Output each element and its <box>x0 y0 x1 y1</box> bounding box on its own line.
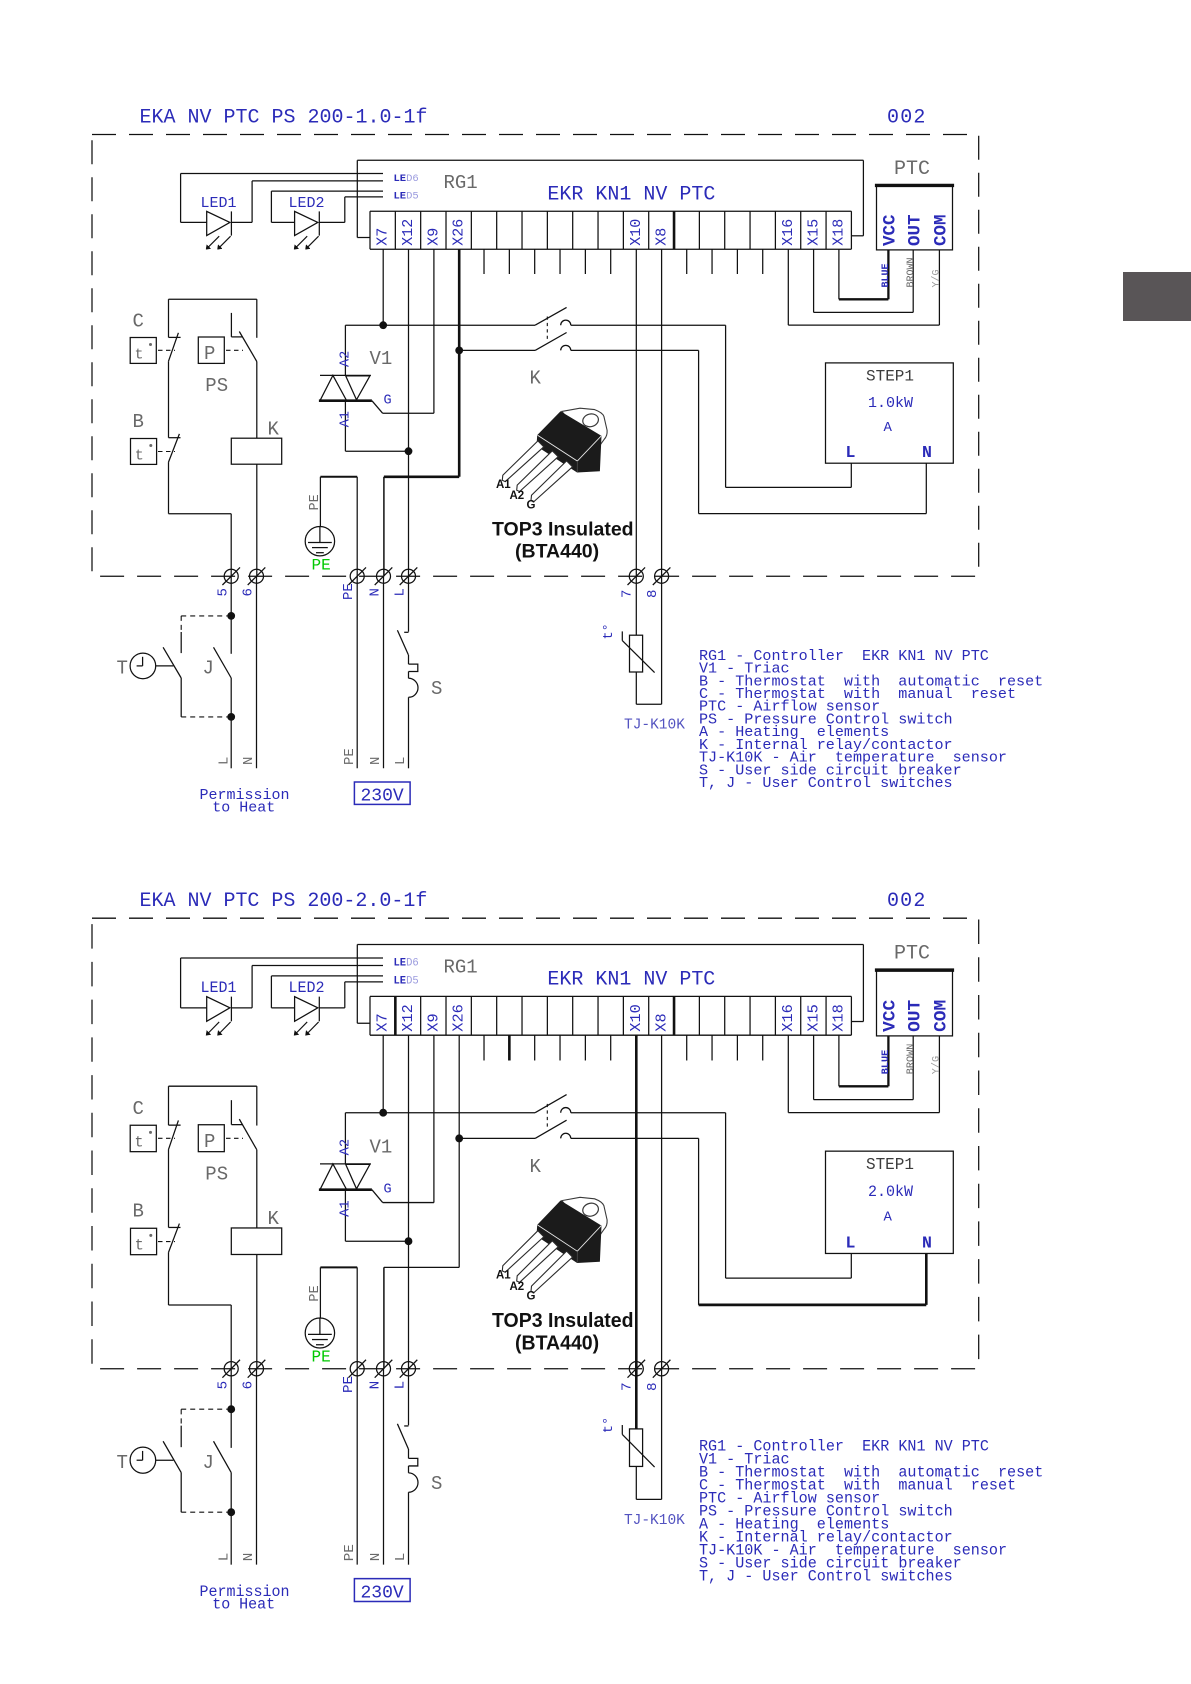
svg-text:LED1: LED1 <box>201 979 237 997</box>
svg-text:V1: V1 <box>370 1136 393 1158</box>
wire LED2 anode to RG1 pin LED5 <box>271 191 383 222</box>
svg-text:t: t <box>135 347 144 364</box>
label PE wire <box>308 494 323 510</box>
svg-text:PE: PE <box>312 556 331 574</box>
svg-text:X10: X10 <box>627 1004 645 1032</box>
pin label X12 <box>400 219 417 246</box>
value label 230V <box>354 782 410 807</box>
terminal label 8 <box>645 590 661 598</box>
svg-text:STEP1: STEP1 <box>866 368 914 386</box>
terminal label N <box>368 1381 384 1390</box>
svg-text:L: L <box>846 443 856 462</box>
wire triac gate G to X9 <box>372 1035 434 1202</box>
svg-text:8: 8 <box>645 590 661 598</box>
svg-text:BLUE: BLUE <box>881 1050 892 1074</box>
wire label BLUE <box>881 1050 892 1074</box>
pin label X9 <box>424 1013 442 1031</box>
svg-text:LED5: LED5 <box>394 191 419 203</box>
terminal label L <box>393 588 409 596</box>
relay contact K lower <box>459 1120 571 1138</box>
svg-text:PS: PS <box>205 375 228 397</box>
title label EKA NV PTC PS 200-1.0-1f <box>140 107 428 130</box>
label TJ-K10K <box>624 718 685 734</box>
svg-text:EKR KN1 NV PTC: EKR KN1 NV PTC <box>547 968 715 991</box>
wire T branch dashed bottom <box>181 678 231 717</box>
label EKR KN1 NV PTC <box>547 968 715 991</box>
pin label X10 <box>628 219 645 246</box>
svg-text:L: L <box>393 757 409 765</box>
svg-text:B: B <box>133 411 144 433</box>
thermostat sensor box B (t deg) <box>131 439 176 465</box>
label TJ-K10K <box>624 1513 685 1529</box>
svg-text:t°: t° <box>602 1417 617 1434</box>
circuit breaker S <box>397 576 418 768</box>
airflow sensor PTC box <box>875 185 954 250</box>
svg-text:EKR KN1 NV PTC: EKR KN1 NV PTC <box>547 184 715 207</box>
thermistor TJ-K10K <box>622 1425 661 1499</box>
junction dot T/J bottom <box>227 713 235 721</box>
wire label PE mains <box>342 748 358 765</box>
pressure switch box P <box>198 1125 243 1153</box>
wire N down <box>383 1369 385 1565</box>
ground symbol PE <box>305 1318 334 1348</box>
svg-text:L: L <box>217 757 233 765</box>
label LED2 <box>289 195 325 212</box>
wire label N mains <box>368 757 384 765</box>
svg-text:X26: X26 <box>451 219 468 246</box>
terminal label 6 <box>241 1381 257 1390</box>
relay contact K upper <box>535 1095 571 1113</box>
svg-text:PTC: PTC <box>894 158 930 181</box>
svg-text:PE: PE <box>341 1376 357 1393</box>
svg-text:N: N <box>368 588 384 596</box>
wire LED1 cathode to RG1 <box>231 966 383 1008</box>
terminal 8 <box>653 1360 671 1378</box>
pin label A1 <box>339 411 354 427</box>
pressure switch contact PS <box>231 1086 256 1228</box>
svg-text:7: 7 <box>620 590 636 598</box>
wire PE down <box>356 1369 358 1565</box>
pin label L <box>846 443 856 462</box>
wire PE down <box>356 576 358 768</box>
pin label X15 <box>805 219 822 246</box>
svg-text:VCC: VCC <box>881 999 901 1032</box>
svg-text:6: 6 <box>241 588 257 596</box>
junction dot A1/X12 node <box>405 447 413 455</box>
title label EKA NV PTC PS 200-2.0-1f <box>140 890 428 913</box>
svg-text:N: N <box>241 1553 257 1562</box>
wire terminal 5 down <box>230 576 232 616</box>
wire N node to terminal N <box>383 1267 385 1368</box>
label A heater <box>884 420 893 436</box>
svg-text:A1: A1 <box>339 411 354 427</box>
wire X12 to terminal L <box>408 1035 410 1369</box>
svg-text:K: K <box>530 1156 542 1178</box>
svg-text:L: L <box>846 1234 856 1253</box>
svg-text:LED2: LED2 <box>289 979 325 997</box>
wire X10 to terminal 7 <box>635 249 637 576</box>
svg-text:COM: COM <box>932 1000 952 1032</box>
wire COM yg to X16 <box>788 1035 939 1112</box>
svg-text:t: t <box>135 1134 144 1152</box>
terminal label 5 <box>216 1381 232 1390</box>
svg-text:PE: PE <box>342 748 358 765</box>
svg-text:to Heat: to Heat <box>212 1596 275 1614</box>
svg-text:X18: X18 <box>830 1004 848 1032</box>
label PTC <box>894 942 930 965</box>
pin label COM <box>932 214 952 246</box>
svg-text:G: G <box>384 1182 392 1197</box>
wire label L mains <box>393 757 409 765</box>
label EKR KN1 NV PTC <box>547 184 715 207</box>
controller RG1 box outline <box>357 160 863 237</box>
wire X8 to terminal 8 <box>661 249 663 576</box>
svg-text:TJ-K10K: TJ-K10K <box>624 1513 685 1529</box>
svg-text:1.0kW: 1.0kW <box>868 395 913 412</box>
relay contact linkage dashed <box>546 317 548 342</box>
svg-text:PE: PE <box>312 1349 331 1367</box>
svg-text:X12: X12 <box>399 1004 417 1032</box>
wire X8 to terminal 8 <box>661 1035 663 1369</box>
svg-text:K: K <box>530 367 542 389</box>
label PS <box>205 1163 228 1185</box>
wire X7 to triac gate node <box>382 1035 384 1113</box>
label PE green <box>312 1349 331 1367</box>
svg-text:LED1: LED1 <box>201 195 237 212</box>
wire B to terminal 5 <box>169 514 232 577</box>
label S <box>431 1473 442 1495</box>
svg-text:A2: A2 <box>510 1280 525 1293</box>
svg-text:X12: X12 <box>400 219 417 246</box>
svg-text:L: L <box>393 588 409 596</box>
svg-text:TJ-K10K: TJ-K10K <box>624 718 685 734</box>
label K coil <box>268 1208 280 1230</box>
junction dot X7/A2 node <box>379 1109 387 1117</box>
label B <box>133 1200 144 1222</box>
svg-text:A: A <box>884 1210 893 1226</box>
pin label LED5 <box>394 191 419 203</box>
relay coil K <box>231 438 281 464</box>
wire K coil to terminal 6 <box>256 1254 258 1368</box>
svg-text:PE: PE <box>342 1544 358 1561</box>
relay contact linkage dashed <box>546 1104 548 1130</box>
wire PE branch <box>320 477 357 576</box>
switch J <box>214 616 232 678</box>
svg-text:N: N <box>368 1553 384 1562</box>
pin label L <box>846 1234 856 1253</box>
svg-text:G: G <box>527 500 536 512</box>
svg-text:to Heat: to Heat <box>212 800 275 817</box>
LED LED2 <box>294 211 319 249</box>
terminal 6 <box>248 1360 266 1378</box>
svg-text:EKA NV PTC PS 200-1.0-1f: EKA NV PTC PS 200-1.0-1f <box>140 107 428 130</box>
svg-text:t: t <box>135 1237 144 1255</box>
svg-text:002: 002 <box>887 890 927 913</box>
wire terminal 5 down <box>230 1369 232 1409</box>
label V1 <box>370 348 393 370</box>
junction dot T/J top <box>227 612 235 620</box>
wire OUT brown to X15 <box>814 1035 914 1099</box>
label PE wire <box>308 1285 323 1302</box>
svg-text:PTC: PTC <box>894 942 930 965</box>
pin label X10 <box>627 1004 645 1032</box>
svg-text:K: K <box>268 418 280 440</box>
pin label LED6 <box>394 173 419 185</box>
terminal 7 <box>628 567 646 585</box>
svg-text:230V: 230V <box>361 787 404 807</box>
svg-text:TOP3 Insulated: TOP3 Insulated <box>492 519 634 541</box>
svg-text:P: P <box>204 343 215 365</box>
wire VCC blue to X18 <box>839 1035 889 1086</box>
svg-text:X16: X16 <box>779 1004 797 1032</box>
svg-text:BROWN: BROWN <box>906 257 917 287</box>
label J <box>203 657 214 679</box>
svg-text:X15: X15 <box>805 1004 823 1032</box>
wire T branch dashed bottom <box>181 1473 231 1513</box>
svg-text:RG1: RG1 <box>444 172 478 194</box>
caption Permission to Heat <box>200 787 290 817</box>
svg-text:5: 5 <box>216 1381 232 1390</box>
wire K lower to STEP1 N <box>571 350 927 513</box>
wire terminal 7 to sensor <box>635 576 637 635</box>
terminal 7 <box>628 1360 646 1378</box>
caption TOP3 Insulated <box>492 1310 634 1332</box>
svg-text:N: N <box>922 443 932 462</box>
wire COM yg to X16 <box>788 249 939 325</box>
caption TOP3 Insulated <box>492 519 634 541</box>
svg-text:J: J <box>203 1452 214 1474</box>
pin label OUT <box>905 999 925 1032</box>
svg-text:X26: X26 <box>450 1004 468 1032</box>
junction dot X7/A2 node <box>379 321 387 329</box>
terminal PE <box>348 1360 366 1378</box>
thermostat contact B <box>169 1224 181 1305</box>
label S <box>431 678 442 700</box>
label C <box>133 310 144 332</box>
svg-text:X9: X9 <box>425 228 442 246</box>
terminal 5 <box>222 567 240 585</box>
svg-text:PE: PE <box>341 583 357 600</box>
pin label X26 <box>451 219 468 246</box>
wire A2 node horizontal <box>345 324 535 326</box>
wire terminal 8 to sensor <box>661 576 663 704</box>
switch T <box>130 632 181 679</box>
svg-text:t: t <box>135 448 144 465</box>
wire label N permission <box>241 757 257 765</box>
wire label Y/G <box>931 1056 943 1074</box>
label T <box>117 657 128 679</box>
terminal 8 <box>653 567 671 585</box>
wire T branch dashed top <box>181 1409 231 1425</box>
thermostat contact C <box>169 299 181 438</box>
wire label Y/G <box>931 269 943 287</box>
wire label BROWN <box>906 257 917 287</box>
wire label BROWN <box>906 1044 917 1075</box>
relay contact K upper <box>535 307 571 325</box>
pin label A2 <box>339 351 354 367</box>
svg-text:J: J <box>203 657 214 679</box>
caption Permission to Heat <box>200 1583 290 1614</box>
wire terminal 6 to N <box>256 1369 258 1565</box>
svg-text:(BTA440): (BTA440) <box>515 1332 599 1354</box>
svg-text:G: G <box>384 393 392 408</box>
pin label N <box>922 443 932 462</box>
value label 2.0kW <box>868 1183 914 1201</box>
wire label L mains <box>393 1553 409 1562</box>
svg-text:(BTA440): (BTA440) <box>515 541 599 563</box>
svg-text:P: P <box>204 1131 215 1153</box>
svg-text:X16: X16 <box>780 219 797 246</box>
junction dot X26/K node <box>455 347 463 355</box>
svg-text:X9: X9 <box>424 1013 442 1031</box>
svg-text:BLUE: BLUE <box>881 263 892 287</box>
label LED1 <box>201 979 237 997</box>
wire X10 to terminal 7 <box>635 1035 638 1369</box>
svg-text:Y/G: Y/G <box>931 1056 943 1074</box>
label K contacts <box>530 1156 542 1178</box>
pin label G <box>384 1182 392 1197</box>
pin label N <box>922 1234 932 1253</box>
label STEP1 <box>866 368 914 386</box>
legend text <box>699 1438 1043 1586</box>
pin label A2 <box>339 1139 354 1156</box>
svg-text:2.0kW: 2.0kW <box>868 1183 914 1201</box>
pin label A1 <box>339 1200 354 1217</box>
svg-text:N: N <box>368 1381 384 1390</box>
label K contacts <box>530 367 542 389</box>
svg-text:L: L <box>393 1381 409 1390</box>
page number 002 <box>887 107 927 130</box>
label t deg sensor <box>602 1417 617 1434</box>
unused terminal pin stubs <box>484 249 763 274</box>
pin label X8 <box>653 228 670 246</box>
label PTC <box>894 158 930 181</box>
caption (BTA440) <box>515 1332 599 1354</box>
svg-text:t°: t° <box>602 623 617 639</box>
svg-text:VCC: VCC <box>881 214 901 246</box>
pin label X9 <box>425 228 442 246</box>
value label 1.0kW <box>868 395 913 412</box>
svg-text:X15: X15 <box>805 219 822 246</box>
svg-text:LED6: LED6 <box>394 958 419 970</box>
wire node L permission <box>230 1473 232 1565</box>
svg-text:A2: A2 <box>339 351 354 367</box>
heating element STEP1 box <box>826 363 954 463</box>
wire X7 to triac gate node <box>382 249 384 325</box>
wire X26 to N node <box>458 249 461 477</box>
svg-text:B: B <box>133 1200 144 1222</box>
junction dot A1/X12 node <box>405 1237 413 1245</box>
caption (BTA440) <box>515 541 599 563</box>
circuit breaker S <box>397 1369 418 1565</box>
label PE green <box>312 556 331 574</box>
terminal N <box>375 567 393 585</box>
value label 230V <box>354 1579 410 1604</box>
wire terminal 6 to N <box>256 576 258 768</box>
thermistor TJ-K10K <box>622 631 661 704</box>
label LED2 <box>289 979 325 997</box>
LED LED1 <box>206 997 231 1036</box>
relay coil K <box>231 1228 281 1255</box>
svg-text:LED2: LED2 <box>289 195 325 212</box>
wire label N permission <box>241 1553 257 1562</box>
wire N node horizontal <box>384 1266 459 1268</box>
ground symbol PE <box>305 527 334 556</box>
svg-text:COM: COM <box>932 214 952 246</box>
wire label N mains <box>368 1553 384 1562</box>
wire triac gate G to X9 <box>372 249 434 413</box>
wire LED2 anode to RG1 pin LED5 <box>271 976 383 1008</box>
wire thermostat branch top <box>169 1085 257 1087</box>
wire N node horizontal <box>384 475 459 478</box>
label A heater <box>884 1210 893 1226</box>
wire PE branch <box>320 1267 357 1368</box>
svg-text:Y/G: Y/G <box>931 269 943 287</box>
terminal label N <box>368 588 384 596</box>
pin label VCC <box>881 999 901 1032</box>
dashed enclosure border <box>92 918 979 1369</box>
label STEP1 <box>866 1156 914 1174</box>
pressure switch box P <box>198 337 243 365</box>
terminal 5 <box>222 1360 240 1378</box>
svg-text:EKA NV PTC PS 200-2.0-1f: EKA NV PTC PS 200-2.0-1f <box>140 890 428 913</box>
pin label X18 <box>830 1004 848 1032</box>
pin label X16 <box>780 219 797 246</box>
triac package TOP3 Insulated BTA440 drawing <box>496 1197 607 1302</box>
wire label PE mains <box>342 1544 358 1561</box>
side index tab <box>1123 272 1191 321</box>
svg-text:C: C <box>133 310 144 332</box>
schematic 2 : EKA NV PTC PS 200-2.0-1f <box>92 890 1043 1614</box>
svg-text:OUT: OUT <box>905 999 925 1032</box>
junction dot T/J top <box>227 1405 235 1413</box>
pin label X8 <box>653 1013 671 1031</box>
terminal 6 <box>248 567 266 585</box>
wire label L permission <box>217 1553 233 1562</box>
junction dot X26/K node <box>455 1134 463 1142</box>
terminal label 7 <box>620 590 636 598</box>
label J <box>203 1452 214 1474</box>
pin label X26 <box>450 1004 468 1032</box>
svg-text:BROWN: BROWN <box>906 1044 917 1075</box>
svg-text:STEP1: STEP1 <box>866 1156 914 1174</box>
svg-text:L: L <box>393 1553 409 1562</box>
label RG1 <box>444 957 478 979</box>
svg-text:T: T <box>117 1452 128 1474</box>
svg-text:A2: A2 <box>510 490 525 502</box>
wire A2 node horizontal <box>345 1112 535 1114</box>
switch J <box>214 1409 232 1472</box>
svg-text:A2: A2 <box>339 1139 354 1156</box>
svg-text:S: S <box>431 678 442 700</box>
pin label OUT <box>905 214 925 246</box>
thermostat contact C <box>169 1086 181 1227</box>
pin label G <box>384 393 392 408</box>
wire label L permission <box>217 757 233 765</box>
svg-text:N: N <box>368 757 384 765</box>
terminal PE <box>348 567 366 585</box>
svg-text:G: G <box>527 1290 536 1303</box>
svg-text:RG1: RG1 <box>444 957 478 979</box>
svg-text:002: 002 <box>887 107 927 130</box>
thermostat sensor box B (t deg) <box>131 1228 176 1254</box>
pin label X12 <box>399 1004 417 1032</box>
svg-text:LED6: LED6 <box>394 173 419 185</box>
svg-text:V1: V1 <box>370 348 393 370</box>
pin label LED6 <box>394 958 419 970</box>
svg-text:T: T <box>117 657 128 679</box>
wire terminal 7 to sensor <box>635 1369 638 1429</box>
